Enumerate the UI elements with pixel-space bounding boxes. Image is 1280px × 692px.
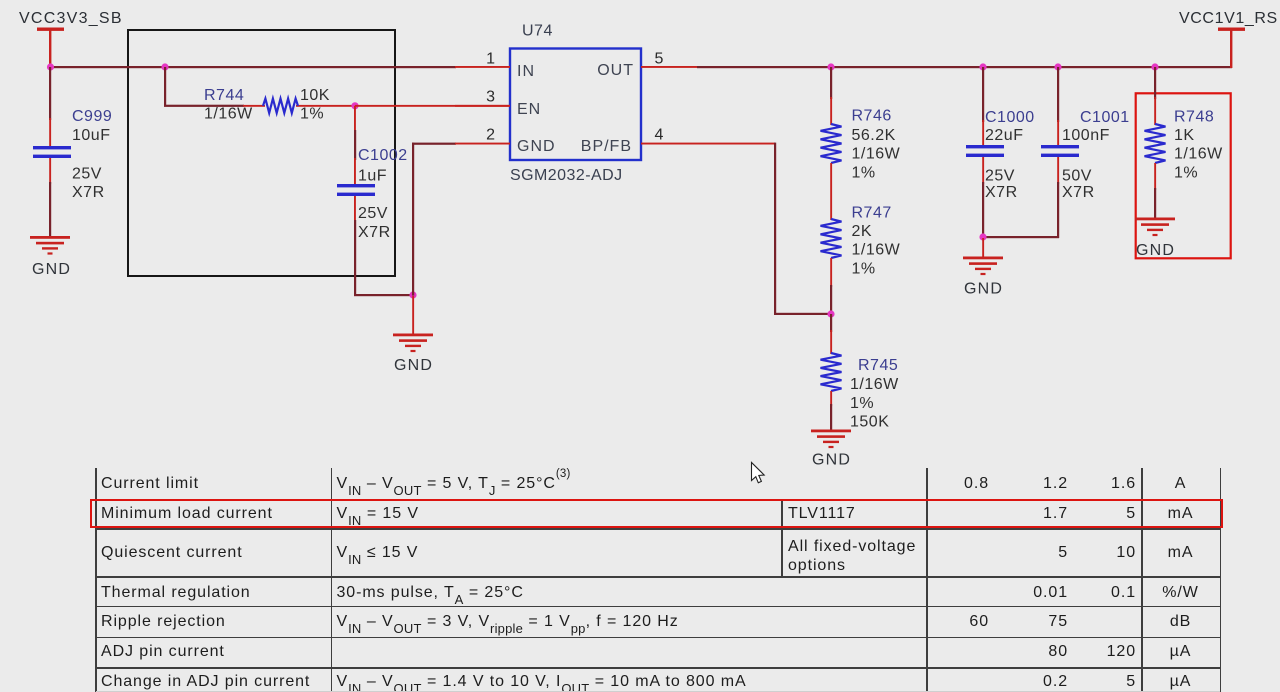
svg-text:10uF: 10uF	[72, 127, 110, 144]
pin 2 GND stub	[455, 127, 510, 145]
svg-text:1K: 1K	[1174, 127, 1195, 144]
power flag VCC1V1_RS	[1179, 10, 1278, 68]
junction at C1000/C1001 ground node	[979, 233, 986, 240]
wire: C1002 bottom to GND junction	[354, 294, 414, 296]
pin 5 OUT stub	[641, 51, 697, 68]
svg-text:56.2K: 56.2K	[852, 127, 896, 144]
svg-text:1%: 1%	[1174, 164, 1198, 181]
svg-text:1/16W: 1/16W	[852, 146, 901, 163]
row: Thermal regulation	[101, 584, 251, 602]
svg-text:1uF: 1uF	[358, 168, 387, 185]
svg-text:2K: 2K	[852, 223, 873, 240]
capacitor C999	[33, 67, 112, 237]
faint next row border at bottom edge	[96, 691, 1220, 692]
pin 4 BP/FB stub	[641, 127, 697, 145]
junction at x=165	[161, 63, 168, 70]
junction at C1000 tap	[979, 63, 986, 70]
ground below U74 pin 2	[393, 334, 433, 375]
junction at BP/FB feedback node	[827, 310, 834, 317]
capacitor C1001	[1041, 67, 1130, 238]
svg-text:GND: GND	[1136, 242, 1175, 259]
row: Change in ADJ pin current	[101, 673, 310, 691]
svg-text:2: 2	[486, 127, 495, 144]
capacitor C1002	[337, 106, 408, 296]
svg-text:1%: 1%	[850, 395, 874, 412]
svg-text:1/16W: 1/16W	[1174, 146, 1223, 163]
resistor R746	[821, 67, 901, 220]
svg-text:25V: 25V	[358, 205, 388, 222]
row: Ripple rejection	[101, 613, 226, 631]
svg-text:1: 1	[486, 51, 495, 68]
wire: R744 to EN pin (red)	[355, 105, 509, 107]
svg-text:R747: R747	[852, 204, 892, 221]
junction at VCC stem	[47, 63, 54, 70]
row: ADJ pin current	[101, 643, 225, 661]
ground below R745	[811, 430, 851, 469]
capacitor C1000	[966, 67, 1035, 237]
svg-text:50V: 50V	[1062, 168, 1092, 185]
svg-text:OUT: OUT	[597, 62, 634, 79]
svg-text:1%: 1%	[852, 260, 876, 277]
svg-text:GND: GND	[812, 452, 851, 469]
svg-text:X7R: X7R	[72, 184, 105, 201]
svg-text:R748: R748	[1174, 109, 1214, 126]
pin 3 EN stub	[455, 89, 510, 107]
wire: VCC3V3_SB rail to IN pin	[49, 66, 456, 68]
svg-text:BP/FB: BP/FB	[581, 138, 632, 155]
pin 1 IN stub	[455, 51, 510, 68]
highlight box TLV1117 row (red)	[90, 499, 1223, 528]
table	[0, 0, 1280, 1]
resistor R745	[821, 314, 900, 430]
resistor R747	[821, 204, 901, 314]
table horizontal borders	[96, 499, 1221, 501]
junction at C1001 tap	[1054, 63, 1061, 70]
svg-text:EN: EN	[517, 101, 541, 118]
svg-text:GND: GND	[964, 281, 1003, 298]
svg-text:VCC3V3_SB: VCC3V3_SB	[19, 10, 123, 27]
svg-text:U74: U74	[522, 23, 553, 40]
svg-text:VCC1V1_RS: VCC1V1_RS	[1179, 10, 1278, 27]
svg-text:1%: 1%	[852, 164, 876, 181]
svg-text:R745: R745	[858, 357, 898, 374]
row: Quiescent current	[101, 544, 243, 562]
svg-text:X7R: X7R	[1062, 184, 1095, 201]
power flag VCC3V3_SB	[19, 10, 123, 67]
svg-text:10K: 10K	[300, 87, 330, 104]
svg-text:150K: 150K	[850, 413, 889, 430]
junction at R746 tap	[827, 63, 834, 70]
svg-text:R744: R744	[204, 87, 244, 104]
svg-text:GND: GND	[517, 138, 556, 155]
junction at GND net below box	[409, 291, 416, 298]
svg-text:22uF: 22uF	[985, 127, 1023, 144]
svg-text:C1002: C1002	[358, 147, 408, 164]
wire: OUT rail to VCC1V1_RS	[697, 66, 1232, 68]
svg-text:25V: 25V	[985, 168, 1015, 185]
svg-text:25V: 25V	[72, 166, 102, 183]
resistor R744	[204, 87, 355, 123]
wire: BP/FB route down and across	[697, 143, 832, 315]
svg-text:4: 4	[655, 127, 664, 144]
table vertical borders	[95, 468, 97, 692]
svg-text:1%: 1%	[300, 106, 324, 123]
wire: C1001 bottom across to C1000	[982, 236, 1059, 238]
svg-text:C999: C999	[72, 108, 112, 125]
ground below R748	[1135, 218, 1175, 260]
svg-text:IN: IN	[517, 63, 535, 80]
svg-text:R746: R746	[852, 108, 892, 125]
svg-text:1/16W: 1/16W	[204, 106, 253, 123]
highlight box around R748 (red rectangle)	[1136, 93, 1231, 258]
wire: R744 row left segment	[164, 105, 244, 107]
svg-text:GND: GND	[394, 357, 433, 374]
selection box (black rectangle)	[128, 30, 395, 276]
svg-text:SGM2032-ADJ: SGM2032-ADJ	[510, 167, 623, 184]
svg-text:100nF: 100nF	[1062, 127, 1110, 144]
row: Current limit	[101, 475, 199, 493]
wire: junction to ground	[982, 238, 984, 258]
svg-text:C1000: C1000	[985, 109, 1035, 126]
junction at C1002 tap	[351, 102, 358, 109]
regulator U74 SGM2032-ADJ	[510, 23, 641, 185]
svg-text:3: 3	[486, 89, 495, 106]
svg-text:1/16W: 1/16W	[852, 242, 901, 259]
ground below C1000	[963, 257, 1003, 298]
svg-text:5: 5	[655, 51, 664, 68]
junction at R748 tap	[1151, 63, 1158, 70]
svg-text:C1001: C1001	[1080, 109, 1130, 126]
svg-text:X7R: X7R	[985, 184, 1018, 201]
svg-text:GND: GND	[32, 261, 71, 278]
svg-text:X7R: X7R	[358, 224, 391, 241]
resistor R748	[1145, 67, 1224, 218]
wire: drop from rail to R744 row	[164, 67, 166, 106]
mouse cursor	[752, 463, 765, 483]
svg-text:1/16W: 1/16W	[850, 376, 899, 393]
row: Minimum load current	[101, 505, 273, 523]
wire: GND pin 2 to junction	[412, 143, 456, 334]
ground below C999	[30, 236, 71, 278]
